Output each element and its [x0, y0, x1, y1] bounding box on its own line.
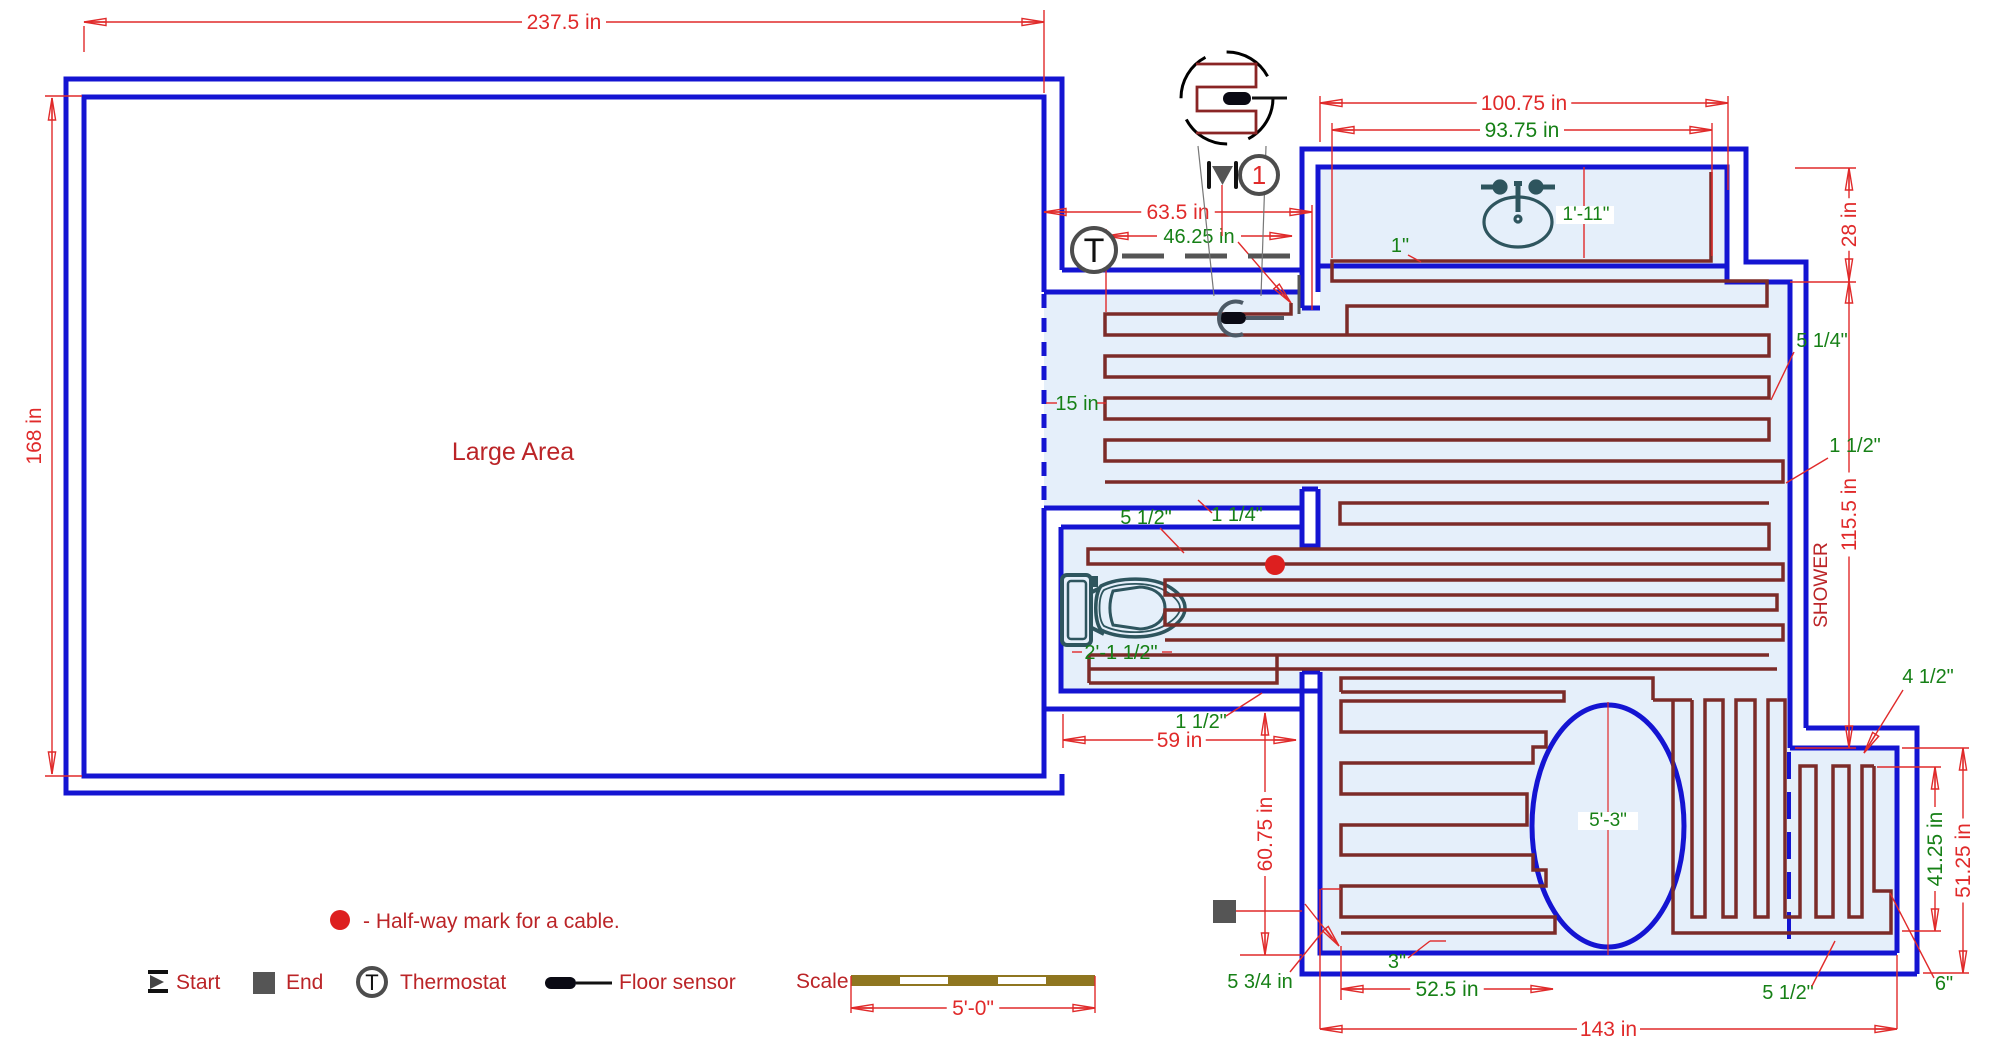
- svg-text:SHOWER: SHOWER: [1811, 542, 1832, 628]
- svg-text:168 in: 168 in: [23, 407, 46, 464]
- dimension 28 in right: [1848, 168, 1850, 281]
- wall outer rectangle Large Area (right edge open at corridor): [66, 79, 1062, 793]
- end marker line: [1236, 910, 1302, 912]
- dimension 143 in: [1320, 1028, 1897, 1030]
- end marker square: [1213, 900, 1236, 923]
- wall bathroom left outer stub lower part: [1300, 270, 1305, 308]
- wall corridor bottom: [1044, 290, 1302, 295]
- svg-text:Thermostat: Thermostat: [400, 971, 506, 994]
- heated floor area fill (lower wall opening): [1302, 546, 1320, 672]
- svg-text:1 1/4": 1 1/4": [1211, 504, 1263, 526]
- svg-text:1'-11": 1'-11": [1563, 204, 1610, 225]
- heating cable lower-left serpentine: [1341, 678, 1653, 933]
- svg-text:1": 1": [1391, 235, 1409, 257]
- floor sensor dashed wire: [1122, 254, 1296, 259]
- detail bubble dashed circle: [1181, 52, 1273, 144]
- svg-text:115.5 in: 115.5 in: [1838, 478, 1861, 551]
- dimension 59 in: [1063, 739, 1296, 741]
- svg-text:143 in: 143 in: [1580, 1018, 1637, 1041]
- wall stub middle: [1302, 489, 1318, 546]
- heated floor area fill (toilet alcove): [1061, 527, 1302, 691]
- detail leader lines: [1198, 146, 1214, 296]
- svg-text:Scale: Scale: [796, 970, 849, 993]
- svg-text:2'-1 1/2": 2'-1 1/2": [1084, 642, 1157, 664]
- svg-text:T: T: [1084, 232, 1105, 270]
- legend scale bar: [851, 975, 1095, 986]
- legend start symbol: [148, 970, 168, 974]
- shower glass dashed line: [1787, 752, 1791, 950]
- dimension 60.75 in: [1264, 713, 1266, 955]
- dimension 115.5 in right: [1848, 281, 1850, 748]
- svg-text:Floor sensor: Floor sensor: [619, 971, 736, 994]
- wall alcove inner: [1061, 527, 1320, 691]
- wall stub cap upper-top: [1302, 306, 1320, 311]
- wall shower inner: [1790, 748, 1897, 953]
- wall inner rectangle Large Area (right edge partly dashed door opening): [84, 97, 1044, 776]
- dimension 237.5 in top: [84, 21, 1044, 23]
- floor sensor lead down: [1298, 275, 1301, 314]
- dimension 63.5 in: [1044, 211, 1312, 213]
- svg-text:5'-3": 5'-3": [1589, 810, 1627, 831]
- heating cable vanity run: [1332, 172, 1767, 335]
- svg-text:28 in: 28 in: [1838, 202, 1861, 248]
- svg-text:237.5 in: 237.5 in: [527, 11, 602, 34]
- svg-text:52.5 in: 52.5 in: [1415, 978, 1478, 1001]
- label 15 in: [1046, 402, 1057, 404]
- svg-text:15 in: 15 in: [1055, 393, 1098, 415]
- wall lower-left outer: [1302, 672, 1917, 974]
- svg-text:End: End: [286, 971, 323, 994]
- floor sensor capsule: [1220, 312, 1246, 324]
- svg-text:63.5 in: 63.5 in: [1146, 201, 1209, 224]
- svg-text:93.75 in: 93.75 in: [1485, 119, 1560, 142]
- svg-text:5 3/4 in: 5 3/4 in: [1227, 971, 1293, 993]
- svg-text:1 1/2": 1 1/2": [1175, 711, 1227, 733]
- wall corridor top: [1062, 268, 1302, 273]
- heated floor area fill (main bathroom + shower): [1320, 266, 1897, 953]
- toilet symbol: [1062, 575, 1185, 645]
- thermostat circle: [1072, 228, 1116, 272]
- legend half-way dot: [330, 910, 350, 930]
- door opening dashed line (hallway): [1042, 294, 1047, 506]
- heating cable alcove below toilet: [1089, 655, 1777, 683]
- svg-text:Start: Start: [176, 971, 221, 994]
- heated floor area fill (vanity strip): [1320, 167, 1727, 266]
- heating cable main serpentine upper: [1105, 303, 1783, 482]
- wall lower-left inner: [1320, 672, 1897, 953]
- dimension 52.5 in: [1341, 988, 1553, 990]
- svg-text:4 1/2": 4 1/2": [1902, 666, 1954, 688]
- wall bathroom left inner upper: [1318, 167, 1790, 748]
- label 2ft-1 1/2 in: [1072, 651, 1082, 653]
- svg-text:T: T: [365, 970, 378, 995]
- dimension 41.25 in shower: [1934, 767, 1936, 931]
- legend thermostat symbol: [358, 968, 386, 996]
- legend floor sensor symbol: [545, 977, 576, 989]
- svg-text:5 1/4": 5 1/4": [1796, 330, 1848, 352]
- legend end symbol: [253, 972, 275, 994]
- svg-text:46.25 in: 46.25 in: [1163, 226, 1234, 248]
- svg-text:- Half-way mark for a cable.: - Half-way mark for a cable.: [363, 910, 620, 933]
- svg-text:6": 6": [1935, 973, 1953, 995]
- bathtub centre line and label: [1607, 702, 1609, 955]
- detail bubble cable: [1196, 64, 1256, 133]
- wall stub cap lower: [1302, 670, 1320, 675]
- heated floor area fill (corridor strip): [1044, 292, 1302, 508]
- leader arrow to cable start: [1238, 242, 1288, 300]
- wall bathroom left outer upper: [1302, 149, 1806, 728]
- heating cable vertical serpentine: [1653, 700, 1891, 933]
- svg-text:Large Area: Large Area: [452, 438, 574, 466]
- detail bubble sensor capsule: [1223, 92, 1251, 105]
- bathtub oval: [1532, 705, 1684, 947]
- wall alcove outer: [1044, 508, 1302, 709]
- svg-text:3": 3": [1388, 951, 1406, 973]
- svg-text:60.75 in: 60.75 in: [1254, 797, 1277, 872]
- dimension 46.25 in: [1106, 235, 1292, 237]
- svg-text:5 1/2": 5 1/2": [1120, 507, 1172, 529]
- dimension 93.75 in: [1332, 129, 1712, 131]
- sink symbol: [1481, 181, 1555, 247]
- dimension 100.75 in: [1320, 102, 1728, 104]
- dimension 168 in left: [51, 98, 53, 774]
- heated floor area fill (upper wall opening): [1302, 310, 1320, 488]
- svg-text:100.75 in: 100.75 in: [1481, 92, 1567, 115]
- svg-text:1 1/2": 1 1/2": [1829, 435, 1881, 457]
- svg-text:1: 1: [1252, 160, 1266, 190]
- half-way mark red dot: [1265, 555, 1285, 575]
- start marker: [1207, 163, 1211, 187]
- dimension 51.25 in shower: [1962, 748, 1964, 973]
- svg-text:51.25 in: 51.25 in: [1952, 823, 1975, 898]
- heating cable main serpentine mid: [1088, 503, 1783, 640]
- legend scale dimension: [850, 976, 852, 1013]
- svg-text:41.25 in: 41.25 in: [1924, 812, 1947, 887]
- wall shower outer: [1806, 728, 1917, 974]
- wall vanity bottom: [1318, 264, 1727, 269]
- dimension 1ft-11in vanity: [1583, 167, 1585, 258]
- svg-text:5'-0": 5'-0": [952, 997, 994, 1020]
- svg-text:5 1/2": 5 1/2": [1762, 982, 1814, 1004]
- detail number circle: [1240, 156, 1278, 194]
